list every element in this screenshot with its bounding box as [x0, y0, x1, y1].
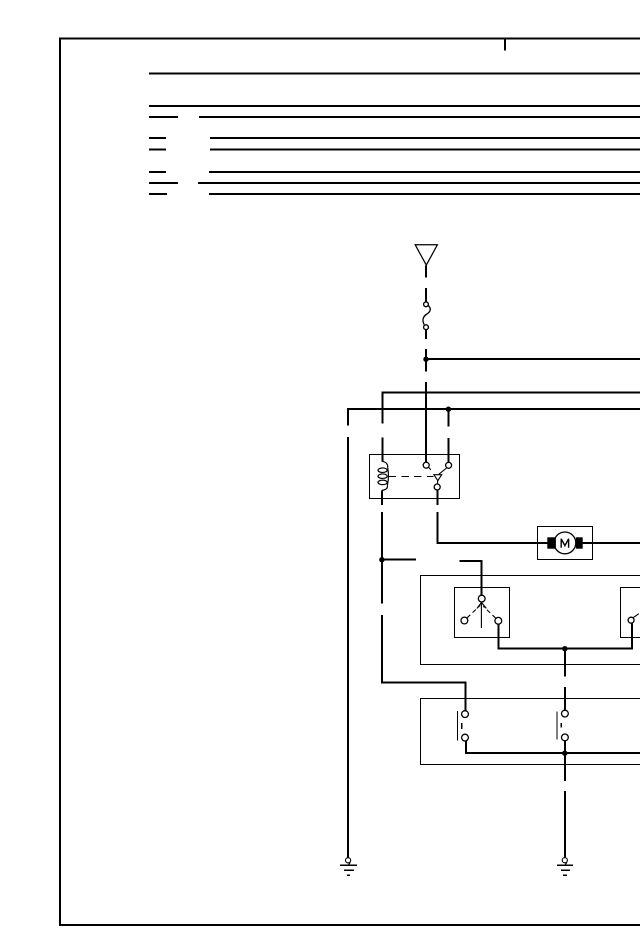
- relay contact pin 2: [446, 462, 452, 468]
- switch S2 contact: [628, 617, 634, 623]
- wire node A to relay contact: [425, 382, 427, 462]
- wire bus C with corner down: [348, 409, 640, 425]
- wire to junction: [425, 349, 427, 372]
- relay coil: [378, 461, 388, 490]
- wire node E to ground G2: [564, 753, 566, 781]
- switch S3 bottom pin: [462, 734, 469, 741]
- relay U1 box: [370, 455, 460, 499]
- junction node D: [562, 646, 567, 651]
- relay contact pin 1: [423, 462, 429, 468]
- wire bus line 8: [149, 193, 640, 195]
- lower connector box: [421, 699, 640, 765]
- switch S3 top pin: [462, 711, 469, 718]
- motor brush left: [547, 537, 556, 548]
- ground G2: [557, 858, 573, 876]
- wire bus line 5: [149, 148, 640, 150]
- switch S4 blade: [556, 712, 558, 740]
- switch S1 left contact: [461, 617, 468, 624]
- wire bus from node A: [426, 358, 640, 360]
- wire to fuse: [425, 288, 427, 302]
- wire bus line 2: [149, 105, 640, 107]
- switch S3 blade: [457, 711, 459, 741]
- power feed arrow (triangle): [415, 245, 437, 265]
- switch S4 bottom pin: [562, 734, 569, 741]
- wire S3/S4 common bus: [466, 741, 640, 753]
- motor M1 box: [538, 527, 593, 560]
- switch S1 right contact: [495, 617, 502, 624]
- wire from triangle apex: [425, 266, 427, 278]
- motor armature circle: [554, 532, 576, 554]
- motor letter M: [561, 539, 568, 548]
- wire motor to right: [581, 542, 640, 544]
- switch S1 right dashed link: [483, 606, 495, 618]
- wire node B down: [447, 409, 449, 426]
- relay movable arm: [439, 468, 447, 474]
- wire node D down: [564, 649, 566, 677]
- junction node E: [562, 751, 567, 756]
- wire to relay coil: [381, 438, 383, 462]
- wire left branch to ground: [347, 437, 349, 858]
- switch S2 contact tick: [633, 614, 639, 618]
- relay contact pin 1 tick: [429, 467, 431, 470]
- wire to relay contact 2: [447, 438, 449, 463]
- wire node C to switch box: [382, 615, 466, 711]
- relay arm head: [434, 475, 442, 481]
- motor brush right: [576, 537, 583, 548]
- relay arm link: [436, 481, 438, 484]
- junction node C: [379, 557, 384, 562]
- wire bus line 1: [149, 73, 640, 75]
- switch S1 arm: [477, 603, 487, 629]
- switch S3 dash: [461, 723, 463, 729]
- switch S1 sub-box: [455, 588, 510, 638]
- ground G1: [340, 858, 357, 876]
- switch S1 left dashed link: [467, 605, 480, 618]
- junction node A: [423, 357, 428, 362]
- wire stub from node C: [382, 559, 416, 561]
- wire bus line 6: [149, 171, 640, 173]
- wire coil to junction C: [381, 490, 383, 505]
- relay common pin: [434, 484, 440, 490]
- wire bus B with corner down: [382, 393, 640, 424]
- relay actuation dashed link: [389, 476, 434, 478]
- fuse F1: [423, 302, 430, 330]
- wire bus line 4: [149, 137, 640, 139]
- switch S4 dash: [560, 723, 562, 728]
- switch assembly box: [421, 576, 640, 665]
- wire bus line 3: [149, 116, 640, 118]
- switch S2 sub-box: [621, 588, 640, 638]
- wire below fuse: [425, 330, 427, 339]
- wire relay to motor: [436, 490, 438, 505]
- wire S1 to S2: [499, 623, 632, 648]
- wire stub B: [459, 561, 481, 595]
- switch S4 top pin: [562, 710, 569, 717]
- junction node B: [446, 407, 451, 412]
- wire bus line 7: [149, 182, 640, 184]
- switch S1 common pin: [478, 595, 485, 602]
